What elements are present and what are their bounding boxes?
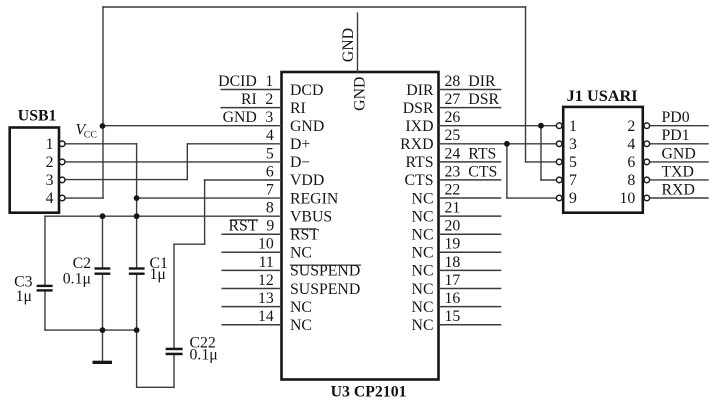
- svg-text:2: 2: [46, 154, 54, 171]
- svg-text:6: 6: [266, 163, 274, 180]
- svg-text:8: 8: [627, 172, 635, 189]
- svg-text:26: 26: [445, 109, 461, 126]
- svg-text:RI: RI: [290, 100, 306, 117]
- svg-text:VBUS: VBUS: [290, 208, 332, 225]
- svg-text:22: 22: [445, 181, 461, 198]
- svg-text:GND: GND: [662, 145, 696, 162]
- svg-text:PD1: PD1: [662, 127, 690, 144]
- svg-text:D−: D−: [290, 154, 310, 171]
- svg-text:1: 1: [265, 73, 273, 90]
- svg-text:11: 11: [259, 254, 274, 271]
- svg-text:RST: RST: [290, 227, 319, 244]
- svg-text:18: 18: [445, 254, 461, 271]
- svg-text:3: 3: [569, 136, 577, 153]
- svg-text:1: 1: [46, 136, 54, 153]
- svg-text:0.1μ: 0.1μ: [63, 271, 91, 288]
- svg-text:5: 5: [569, 154, 577, 171]
- svg-text:GND: GND: [290, 118, 324, 135]
- svg-text:DSR: DSR: [468, 91, 499, 108]
- svg-text:25: 25: [445, 127, 461, 144]
- svg-text:23: 23: [445, 163, 461, 180]
- svg-text:NC: NC: [412, 317, 434, 334]
- svg-text:1: 1: [569, 118, 577, 135]
- svg-text:9: 9: [266, 218, 274, 235]
- svg-text:7: 7: [569, 172, 577, 189]
- svg-text:GND: GND: [351, 77, 368, 111]
- svg-text:8: 8: [266, 200, 274, 217]
- svg-text:DIR: DIR: [468, 73, 496, 90]
- svg-text:SUSPEND: SUSPEND: [290, 263, 360, 280]
- svg-text:7: 7: [266, 181, 274, 198]
- svg-text:NC: NC: [412, 263, 434, 280]
- svg-text:DCD: DCD: [290, 82, 323, 99]
- svg-text:2: 2: [265, 91, 273, 108]
- svg-text:TXD: TXD: [662, 163, 694, 180]
- svg-text:4: 4: [627, 136, 635, 153]
- svg-text:4: 4: [46, 190, 54, 207]
- svg-text:2: 2: [627, 118, 635, 135]
- svg-text:USB1: USB1: [18, 107, 57, 124]
- svg-text:GND: GND: [223, 109, 257, 126]
- svg-text:NC: NC: [412, 208, 434, 225]
- svg-text:6: 6: [627, 154, 635, 171]
- svg-text:CC: CC: [84, 130, 97, 141]
- svg-text:RXD: RXD: [662, 181, 695, 198]
- svg-text:3: 3: [46, 172, 54, 189]
- svg-text:PD0: PD0: [662, 109, 690, 126]
- svg-text:DIR: DIR: [406, 82, 434, 99]
- svg-text:DSR: DSR: [403, 100, 434, 117]
- svg-text:NC: NC: [290, 317, 312, 334]
- svg-text:13: 13: [258, 290, 274, 307]
- svg-text:NC: NC: [412, 281, 434, 298]
- svg-text:27: 27: [445, 91, 461, 108]
- svg-text:16: 16: [445, 290, 461, 307]
- svg-text:17: 17: [445, 272, 461, 289]
- svg-text:NC: NC: [290, 299, 312, 316]
- svg-text:REGIN: REGIN: [290, 190, 339, 207]
- svg-text:RST: RST: [229, 218, 258, 235]
- svg-text:RTS: RTS: [468, 145, 496, 162]
- svg-text:DCID: DCID: [218, 73, 257, 90]
- svg-text:12: 12: [258, 272, 274, 289]
- svg-text:0.1μ: 0.1μ: [190, 346, 218, 363]
- svg-text:20: 20: [445, 218, 461, 235]
- svg-text:CTS: CTS: [468, 163, 497, 180]
- svg-text:C2: C2: [73, 255, 92, 272]
- svg-text:24: 24: [445, 145, 461, 162]
- svg-text:U3 CP2101: U3 CP2101: [331, 383, 407, 400]
- svg-text:19: 19: [445, 236, 461, 253]
- svg-text:RXD: RXD: [400, 136, 433, 153]
- svg-text:NC: NC: [412, 245, 434, 262]
- svg-text:4: 4: [266, 127, 274, 144]
- svg-text:10: 10: [258, 236, 274, 253]
- svg-text:14: 14: [258, 308, 274, 325]
- svg-text:28: 28: [445, 73, 461, 90]
- svg-text:D+: D+: [290, 136, 310, 153]
- svg-text:5: 5: [266, 145, 274, 162]
- svg-text:VDD: VDD: [290, 172, 324, 189]
- svg-text:GND: GND: [340, 28, 357, 62]
- svg-text:NC: NC: [412, 190, 434, 207]
- svg-text:1μ: 1μ: [16, 288, 32, 305]
- svg-text:IXD: IXD: [405, 118, 433, 135]
- svg-text:1μ: 1μ: [150, 266, 166, 283]
- svg-text:CTS: CTS: [405, 172, 434, 189]
- svg-text:NC: NC: [412, 227, 434, 244]
- svg-text:21: 21: [445, 200, 461, 217]
- svg-text:10: 10: [620, 190, 636, 207]
- svg-text:15: 15: [445, 308, 461, 325]
- svg-text:RI: RI: [241, 91, 257, 108]
- svg-text:SUSPEND: SUSPEND: [290, 281, 360, 298]
- svg-text:J1 USARI: J1 USARI: [567, 86, 638, 105]
- svg-text:RTS: RTS: [405, 154, 433, 171]
- svg-text:9: 9: [569, 190, 577, 207]
- svg-text:NC: NC: [412, 299, 434, 316]
- svg-text:NC: NC: [290, 245, 312, 262]
- svg-text:3: 3: [265, 109, 273, 126]
